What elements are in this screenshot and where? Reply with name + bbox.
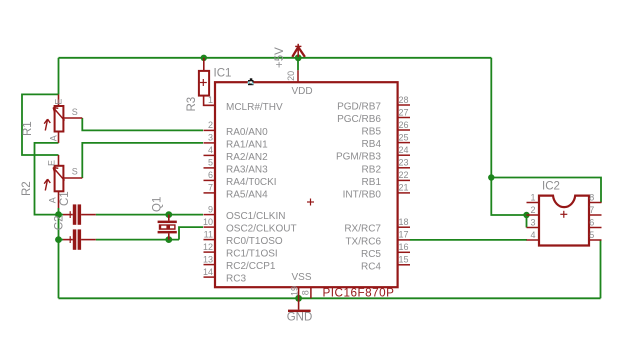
svg-text:R1: R1 <box>22 121 34 136</box>
junction dot right drop branch <box>488 174 494 180</box>
svg-text:RB2: RB2 <box>362 164 382 175</box>
svg-text:RC3: RC3 <box>226 274 246 285</box>
svg-text:RA1/AN1: RA1/AN1 <box>226 139 268 150</box>
svg-text:RX/RC7: RX/RC7 <box>344 224 381 235</box>
svg-text:RB5: RB5 <box>362 127 382 138</box>
svg-text:RC0/T1OSO: RC0/T1OSO <box>226 236 283 247</box>
IC1 pin number 20 <box>286 71 296 81</box>
IC1 pin 19 stub <box>298 287 300 298</box>
svg-text:19: 19 <box>289 286 299 296</box>
potentiometer R2 <box>44 155 82 208</box>
wire gnd column R2.A down to bottom rail <box>58 208 60 298</box>
IC1 pin 20 stub <box>297 70 299 82</box>
label R3 <box>186 97 198 112</box>
svg-text:GND: GND <box>287 312 313 324</box>
svg-text:4: 4 <box>530 230 535 240</box>
svg-text:RA3/AN3: RA3/AN3 <box>226 164 268 175</box>
svg-text:RB1: RB1 <box>362 177 382 188</box>
svg-text:5: 5 <box>589 230 594 240</box>
svg-text:RB4: RB4 <box>362 139 382 150</box>
svg-text:RC4: RC4 <box>361 261 381 272</box>
IC1 left pin names <box>226 102 297 285</box>
IC1 origin cross <box>307 199 314 206</box>
junction dot IC2 pin2 <box>523 212 529 218</box>
svg-text:IC1: IC1 <box>214 68 232 80</box>
junction dot rail/R3 <box>201 55 207 61</box>
svg-text:PGM/RB3: PGM/RB3 <box>336 152 381 163</box>
wire bottom GND rail <box>59 297 601 299</box>
svg-text:8: 8 <box>300 290 310 295</box>
wire C2 right to Q1 bottom <box>96 239 179 241</box>
label C1 <box>59 191 71 206</box>
label R1 pin E <box>53 99 63 105</box>
svg-text:E: E <box>46 160 56 166</box>
svg-text:A: A <box>47 197 57 203</box>
svg-text:23: 23 <box>399 158 409 168</box>
svg-text:RA5/AN4: RA5/AN4 <box>226 189 268 200</box>
svg-text:28: 28 <box>399 95 409 105</box>
wire +5V top rail <box>59 57 492 59</box>
resistor R3 <box>199 58 216 106</box>
svg-text:24: 24 <box>399 145 409 155</box>
label R2 pin A <box>47 197 57 203</box>
svg-text:+5V: +5V <box>274 47 286 68</box>
svg-text:R2: R2 <box>21 181 33 196</box>
wire VDD pin20 to rail <box>297 58 299 71</box>
svg-text:E: E <box>53 99 63 105</box>
junction dot Q1 bottom <box>165 236 172 243</box>
ground GND symbol <box>298 298 300 309</box>
svg-text:1: 1 <box>208 95 213 105</box>
wire R1.S to RA0 pin2 <box>82 118 203 130</box>
wire IC2 pin2 to pin3 <box>526 215 528 228</box>
IC1 left pin stubs <box>204 105 216 277</box>
svg-text:20: 20 <box>286 71 296 81</box>
op IC2 body <box>539 196 589 246</box>
crystal Q1 <box>158 215 177 240</box>
IC1 pin number 19 <box>289 286 299 296</box>
svg-text:PGD/RB7: PGD/RB7 <box>337 102 381 113</box>
svg-text:OSC2/CLKOUT: OSC2/CLKOUT <box>226 224 297 235</box>
label +5V <box>274 47 286 68</box>
IC2 right pin stubs <box>589 203 602 241</box>
svg-text:Q1: Q1 <box>152 197 164 212</box>
svg-text:13: 13 <box>203 254 213 264</box>
svg-text:R3: R3 <box>186 97 198 112</box>
svg-text:2: 2 <box>530 205 535 215</box>
IC1 right pin numbers <box>399 95 409 265</box>
svg-text:22: 22 <box>399 170 409 180</box>
svg-text:VDD: VDD <box>291 86 312 97</box>
svg-text:1: 1 <box>530 192 535 202</box>
svg-text:S: S <box>72 167 78 177</box>
svg-text:7: 7 <box>208 183 213 193</box>
svg-text:INT/RB0: INT/RB0 <box>343 189 382 200</box>
svg-text:IC2: IC2 <box>542 180 560 192</box>
label C2 <box>54 215 66 230</box>
junction dot Q1 top <box>165 211 172 218</box>
svg-text:3: 3 <box>208 133 213 143</box>
supply +5V symbol <box>292 44 305 57</box>
svg-text:OSC1/CLKIN: OSC1/CLKIN <box>226 211 285 222</box>
IC1 right pin stubs <box>397 105 410 265</box>
svg-text:18: 18 <box>399 217 409 227</box>
IC1 pin 8 stub <box>310 287 312 298</box>
svg-text:12: 12 <box>203 242 213 252</box>
svg-text:2: 2 <box>208 120 213 130</box>
wire branch to IC2 pin8 <box>491 178 601 203</box>
wire C1 left <box>59 214 64 216</box>
wire right drop from rail <box>491 58 526 215</box>
IC2 left pin stubs <box>527 203 540 241</box>
svg-text:RC2/CCP1: RC2/CCP1 <box>226 261 276 272</box>
svg-text:PGC/RB6: PGC/RB6 <box>337 114 381 125</box>
wire R1.A to gnd column <box>35 143 59 215</box>
capacitor C1 <box>63 204 96 224</box>
svg-text:21: 21 <box>399 183 409 193</box>
wire IC2 pin5 to bottom rail <box>600 240 602 298</box>
svg-text:PIC16F870P: PIC16F870P <box>323 286 395 299</box>
wire TX/RC6 pin17 to IC2 pin4 <box>410 239 527 241</box>
svg-text:RC5: RC5 <box>361 249 381 260</box>
svg-text:RC1/T1OSI: RC1/T1OSI <box>226 249 278 260</box>
label R1 <box>22 121 34 136</box>
wire jog up to OSC2 pin10 <box>179 227 203 240</box>
svg-text:8: 8 <box>589 192 594 202</box>
svg-text:RA2/AN2: RA2/AN2 <box>226 152 268 163</box>
svg-text:14: 14 <box>203 267 213 277</box>
svg-text:27: 27 <box>399 107 409 117</box>
svg-text:26: 26 <box>399 120 409 130</box>
svg-text:C2: C2 <box>54 215 66 230</box>
wire R2.S to RA1 pin3 <box>82 143 203 178</box>
svg-text:11: 11 <box>204 229 213 239</box>
svg-text:25: 25 <box>399 132 409 142</box>
IC2 origin cross <box>560 211 567 218</box>
junction dot C2/gnd column <box>55 236 62 243</box>
svg-text:7: 7 <box>589 205 594 215</box>
svg-text:17: 17 <box>399 230 409 240</box>
IC2 pin numbers <box>530 192 594 240</box>
wire C2 left <box>59 239 64 241</box>
svg-text:S: S <box>72 107 78 117</box>
op IC1 body PIC16F870P <box>215 82 398 287</box>
svg-text:4: 4 <box>208 145 213 155</box>
svg-text:A: A <box>49 135 59 141</box>
svg-text:RA4/T0CKI: RA4/T0CKI <box>226 177 277 188</box>
svg-text:6: 6 <box>589 217 594 227</box>
wire R2.E loop <box>22 94 59 155</box>
svg-text:15: 15 <box>399 255 409 265</box>
svg-text:3: 3 <box>530 217 535 227</box>
svg-text:VSS: VSS <box>291 272 311 283</box>
IC1 left pin numbers <box>203 95 213 277</box>
label Q1 <box>152 197 164 212</box>
svg-text:RA0/AN0: RA0/AN0 <box>226 127 268 138</box>
label R1 pin A <box>49 135 59 141</box>
cursor artifact mark <box>248 78 254 85</box>
capacitor C2 <box>63 229 96 249</box>
svg-text:C1: C1 <box>59 191 71 206</box>
label R2 <box>21 181 33 196</box>
junction dot GND rail pin19 <box>295 295 302 302</box>
svg-text:TX/RC6: TX/RC6 <box>345 236 381 247</box>
wire rail drop to R1.E <box>58 58 60 95</box>
svg-text:9: 9 <box>208 204 213 214</box>
junction dot C1/gnd column <box>55 211 62 218</box>
IC1 pin number 8 <box>300 290 310 295</box>
wire C1 right to OSC1 pin9 <box>96 214 203 216</box>
junction dot rail/+5V/pin20 <box>295 54 302 61</box>
svg-text:6: 6 <box>208 170 213 180</box>
svg-text:5: 5 <box>208 158 213 168</box>
IC1 right pin names <box>336 102 381 273</box>
svg-text:16: 16 <box>399 242 409 252</box>
svg-text:MCLR#/THV: MCLR#/THV <box>226 102 283 113</box>
svg-text:10: 10 <box>203 217 213 227</box>
potentiometer R1 <box>44 94 82 142</box>
label R2 pin E <box>46 160 56 166</box>
